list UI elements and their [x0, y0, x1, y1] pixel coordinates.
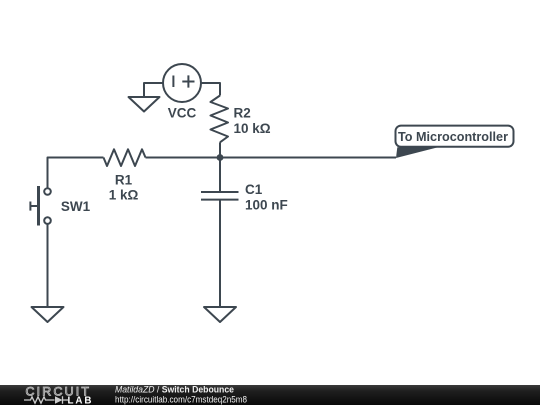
ground (VCC source)	[129, 97, 160, 112]
svg-text:R1: R1	[115, 172, 133, 187]
svg-text:MatildaZD / Switch Debounce: MatildaZD / Switch Debounce	[115, 384, 234, 394]
wire SW1 bottom to ground	[47, 224, 49, 307]
footer bar	[0, 385, 540, 405]
svg-text:R2: R2	[234, 105, 251, 120]
svg-text:To Microcontroller: To Microcontroller	[398, 129, 508, 144]
svg-text:http://circuitlab.com/c7mstdeq: http://circuitlab.com/c7mstdeq2n5m8	[115, 395, 247, 405]
ground (below SW1)	[32, 307, 64, 322]
wire SW1 top to R1 left	[48, 158, 104, 189]
switch SW1 (pushbutton)	[30, 186, 50, 226]
wire R2 bottom to node	[219, 142, 221, 157]
svg-text:C1: C1	[245, 182, 263, 197]
svg-text:100 nF: 100 nF	[245, 198, 288, 213]
svg-text:LAB: LAB	[68, 395, 94, 405]
resistor R2	[211, 96, 229, 143]
wire C1 bottom to ground	[219, 200, 221, 307]
capacitor C1	[201, 192, 239, 200]
wire V1 right lead to R2 top	[201, 83, 220, 96]
svg-text:1 kΩ: 1 kΩ	[109, 187, 139, 202]
svg-text:VCC: VCC	[168, 106, 197, 121]
CircuitLab logo wordmark LAB	[68, 395, 94, 405]
net flag To Microcontroller	[396, 126, 514, 158]
voltage source V1 (VCC)	[163, 64, 201, 102]
CircuitLab logo wordmark CIRCUIT	[26, 385, 92, 399]
footer credit line	[115, 384, 247, 404]
wire V1 left lead to ground	[144, 83, 163, 97]
wire R1 right to flag (through node)	[146, 157, 397, 159]
svg-text:SW1: SW1	[61, 199, 91, 214]
node junction dot	[217, 154, 224, 161]
svg-text:10 kΩ: 10 kΩ	[234, 121, 271, 136]
CircuitLab logo resistor-diode glyph	[24, 396, 68, 403]
resistor R1	[104, 149, 146, 166]
ground (below C1)	[204, 307, 236, 322]
wire node to C1 top	[219, 158, 221, 193]
